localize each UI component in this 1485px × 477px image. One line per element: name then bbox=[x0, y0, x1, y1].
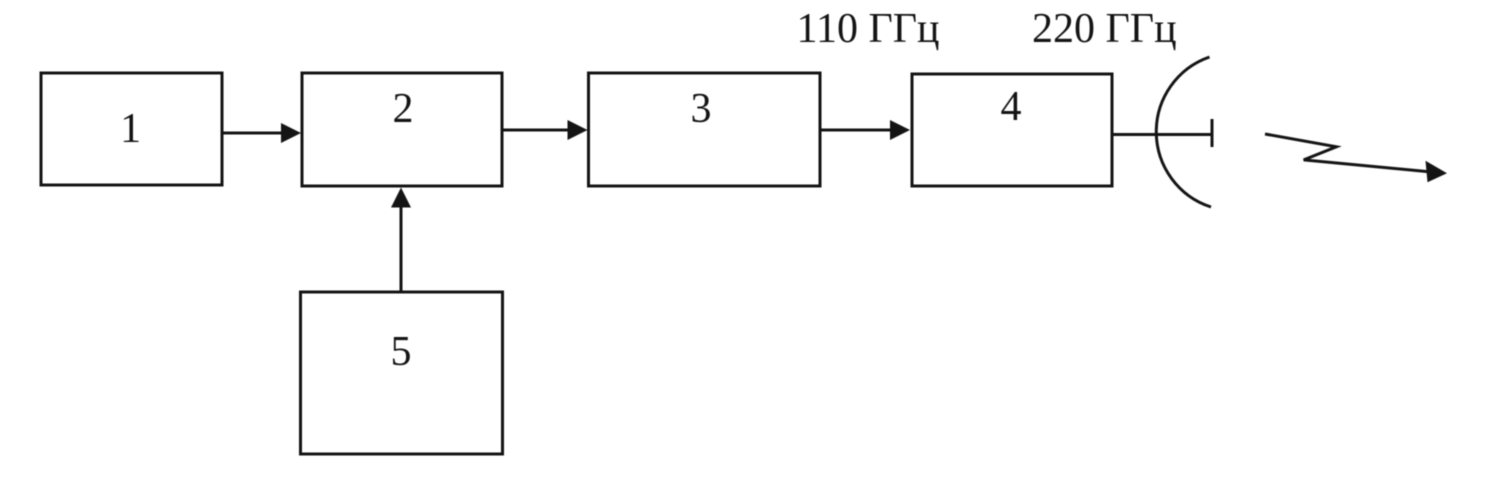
block 3 (amplifier) bbox=[589, 73, 821, 186]
svg-text:220 ГГц: 220 ГГц bbox=[1032, 6, 1177, 52]
block 5 (control source) bbox=[301, 292, 503, 454]
wire block5 to block2 bbox=[400, 206, 403, 292]
block 2 (modulator) bbox=[302, 73, 502, 186]
svg-text:110 ГГц: 110 ГГц bbox=[797, 6, 940, 52]
arrowhead into block 4 bbox=[890, 120, 910, 140]
wire block2 to block3 bbox=[502, 129, 570, 132]
svg-text:3: 3 bbox=[691, 86, 712, 132]
arrowhead into block 2 bbox=[281, 123, 301, 143]
block 4 (frequency doubler) bbox=[912, 74, 1112, 186]
radiated wave zigzag bbox=[1265, 134, 1429, 172]
svg-text:4: 4 bbox=[1001, 84, 1022, 130]
svg-text:5: 5 bbox=[391, 329, 412, 375]
wire block4 to antenna feed bbox=[1112, 133, 1212, 136]
antenna feed element bar bbox=[1211, 119, 1214, 147]
antenna reflector arc bbox=[1156, 57, 1211, 207]
svg-text:2: 2 bbox=[393, 86, 414, 132]
arrowhead of radiated wave bbox=[1426, 161, 1448, 183]
wire block1 to block2 bbox=[222, 132, 284, 135]
arrowhead into block 3 bbox=[568, 120, 588, 140]
arrowhead into block 2 from block 5 bbox=[391, 188, 411, 208]
svg-text:1: 1 bbox=[120, 106, 141, 152]
wire block3 to block4 bbox=[820, 129, 893, 132]
block 1 (oscillator) bbox=[41, 73, 222, 185]
